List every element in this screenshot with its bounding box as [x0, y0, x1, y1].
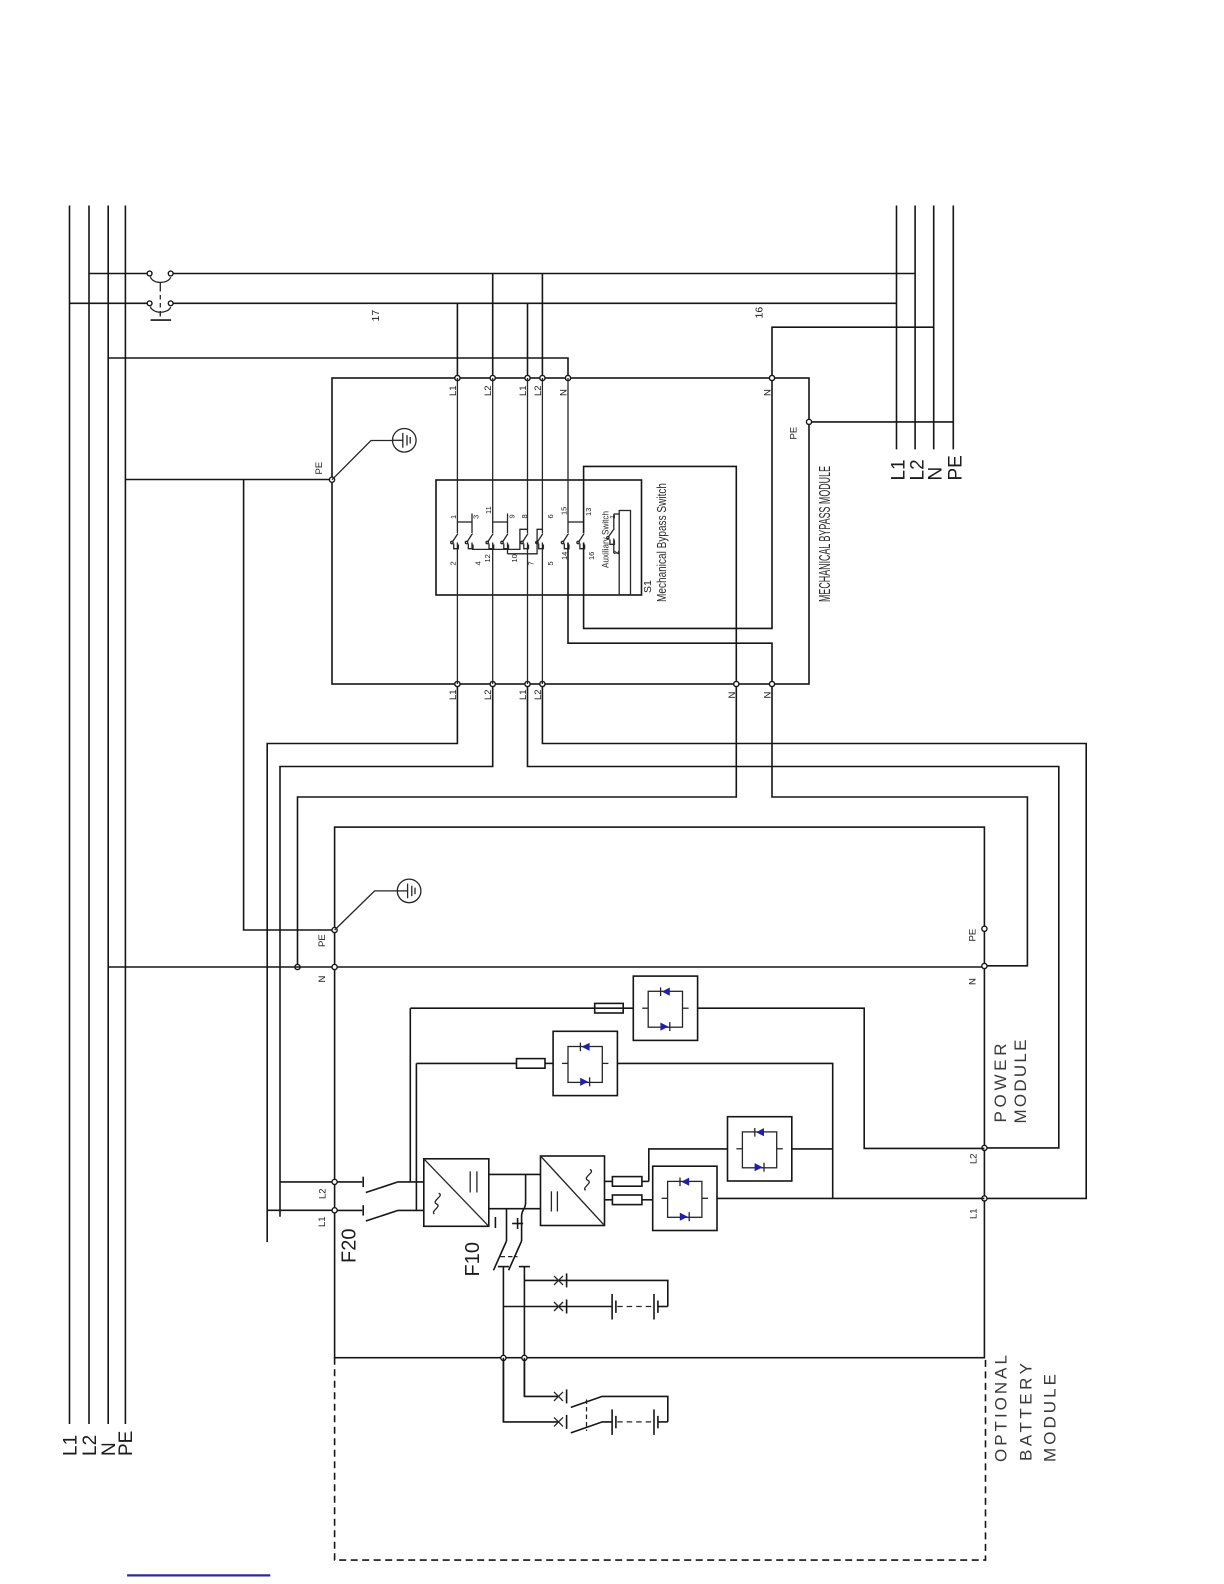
svg-text:F20: F20 — [339, 1229, 361, 1263]
svg-text:Mechanical Bypass Switch: Mechanical Bypass Switch — [654, 483, 669, 602]
fuse F1 static switch 1 — [595, 1003, 634, 1013]
junction battery minus at module edge — [501, 1355, 506, 1360]
wire DC link upper rail — [489, 1173, 541, 1175]
wire DC link lower rail — [489, 1208, 541, 1210]
battery switch blade lower — [571, 1422, 612, 1433]
svg-text:13: 13 — [584, 508, 593, 516]
input switch Q1 pole 2 (L1) — [70, 301, 897, 317]
S1 link pin4 to pin8 feed — [472, 529, 528, 549]
svg-text:L1: L1 — [969, 1208, 980, 1219]
F20 breaker pole 2 — [337, 1205, 424, 1221]
wire DC lower rail riser to F10 — [506, 1209, 508, 1241]
terminal N1 bypass bottom — [734, 681, 739, 686]
fuse F4 inverter output 2 — [612, 1195, 652, 1205]
svg-text:10: 10 — [510, 554, 519, 562]
svg-text:F10: F10 — [462, 1242, 484, 1276]
wire L2 input bus — [88, 206, 90, 1425]
svg-text:17: 17 — [370, 310, 382, 322]
S1 contact 6 pins 6-5 — [536, 378, 544, 684]
terminal L2b bypass bottom — [540, 681, 545, 686]
svg-text:1: 1 — [608, 515, 617, 519]
svg-text:L2: L2 — [318, 1188, 329, 1199]
wire bypass L2 out upper jog to terminal — [280, 1181, 335, 1183]
S1 bridge contacts 11-9 — [493, 521, 508, 523]
ground symbol bypass module — [332, 429, 416, 480]
terminal L1 power module right — [982, 1196, 987, 1201]
internal battery string 1 lower rail — [503, 1306, 612, 1308]
svg-text:9: 9 — [508, 514, 517, 518]
S1 contact 7 pins 15-14 — [561, 378, 569, 549]
svg-text:OPTIONAL: OPTIONAL — [992, 1355, 1011, 1462]
S1 link pin10 to pin6 feed — [508, 529, 543, 554]
disconnect mark string1 lower — [554, 1300, 567, 1314]
svg-text:N: N — [967, 978, 978, 985]
wire pin 16 to N2 top terminal — [584, 380, 772, 628]
rectifier AC-DC converter block — [424, 1159, 489, 1227]
ground symbol power module — [335, 879, 421, 930]
wire static switch 1 output — [698, 1008, 985, 1148]
svg-text:16: 16 — [754, 307, 766, 319]
terminal L2b bypass top — [540, 375, 545, 380]
svg-text:PE: PE — [317, 934, 328, 947]
wire L1 branch 2 to bypass module top terminal — [527, 303, 529, 378]
battery cell 1 string 2 — [612, 1409, 616, 1435]
svg-text:L1: L1 — [889, 459, 910, 480]
disconnect mark string2 lower — [554, 1415, 567, 1429]
output terminal stub PE — [952, 206, 954, 450]
svg-text:4: 4 — [474, 561, 483, 565]
svg-text:PE: PE — [789, 427, 800, 440]
svg-text:15: 15 — [560, 507, 569, 515]
output terminal stub L2 — [914, 206, 916, 450]
terminal N2 bypass bottom — [769, 681, 774, 686]
external battery string 2 upper rail — [524, 1358, 558, 1397]
wire bypass L2 out to power module left — [280, 686, 493, 1216]
wire L1 branch to bypass module top terminal — [456, 303, 458, 378]
junction N branch on bus wire — [295, 964, 300, 969]
terminal PE power module left — [332, 927, 337, 932]
wire N output link 16 — [772, 327, 934, 378]
terminal L1 power module left — [332, 1208, 337, 1213]
wire N from input bus to bypass module top — [108, 358, 568, 378]
svg-text:1: 1 — [449, 515, 458, 519]
S1 contact 2 pins 3-4 — [465, 514, 473, 550]
wire rectifier input riser to static switch 2 — [415, 1063, 417, 1210]
wire bypass L1b out to power module right edge L2 — [528, 686, 1059, 1148]
S1 bridge contacts 1-3 — [457, 521, 472, 523]
svg-text:5: 5 — [546, 561, 555, 565]
wire N2 down to right side N riser — [772, 686, 1027, 966]
terminal L2 bypass top — [490, 375, 495, 380]
wire pin 14 to N2 bottom terminal — [568, 543, 772, 682]
svg-text:L1: L1 — [60, 1435, 81, 1456]
terminal L1 bypass bottom — [455, 681, 460, 686]
svg-text:11: 11 — [484, 506, 493, 514]
wire rectifier input riser to static switch 1 — [409, 1008, 411, 1182]
wire N bus into power module — [108, 966, 984, 968]
junction battery plus at module edge — [522, 1355, 527, 1360]
thyristor static switch block 3 — [728, 1117, 792, 1181]
mechanical bypass module enclosure box — [332, 378, 809, 684]
F10 battery breaker pole 1 — [494, 1241, 509, 1270]
thyristor static switch block 2 — [553, 1031, 617, 1095]
inverter DC-AC converter block — [541, 1156, 605, 1226]
input switch Q1 handle bar — [151, 319, 172, 321]
wire N1 down to N branch — [298, 686, 737, 967]
S1 contact 1 pins 1-2 — [451, 378, 459, 684]
wire PE from input bus to bypass module left edge — [125, 479, 332, 481]
disconnect mark string1 upper — [554, 1273, 567, 1287]
optional battery module dashed enclosure — [335, 1358, 986, 1560]
terminal PE bypass left edge — [329, 477, 334, 482]
power module enclosure box — [335, 827, 985, 1358]
svg-text:2: 2 — [611, 550, 620, 554]
terminal PE bypass right edge — [806, 419, 811, 424]
svg-text:16: 16 — [587, 552, 596, 560]
external battery string 2 lower rail — [503, 1358, 558, 1422]
auxiliary switch box — [619, 511, 630, 595]
svg-text:7: 7 — [527, 561, 536, 565]
svg-text:PE: PE — [314, 462, 325, 475]
F20 breaker pole 1 — [337, 1177, 424, 1193]
wire battery string 1 end link — [658, 1306, 668, 1308]
wire PE from bypass module right edge to output PE — [809, 421, 953, 423]
terminal L1 bypass top — [455, 375, 460, 380]
terminal L1b bypass top — [525, 375, 530, 380]
wire battery bus minus — [502, 1267, 504, 1422]
svg-text:PE: PE — [116, 1431, 137, 1456]
svg-text:MECHANICAL BYPASS MODULE: MECHANICAL BYPASS MODULE — [817, 466, 834, 602]
thyristor static switch block 1 — [633, 976, 697, 1040]
svg-text:N: N — [926, 467, 947, 481]
wire L2 branch to bypass module top terminal — [492, 274, 494, 379]
wire static switch 4 output to L1 terminal — [717, 1197, 984, 1199]
terminal PE power module right — [982, 926, 987, 931]
wire bypass L1 out to power module left (rectifier feed) — [267, 686, 457, 1242]
battery cell 1 string 1 — [612, 1294, 616, 1320]
terminal N bypass top — [565, 375, 570, 380]
auxiliary switch contact — [607, 514, 619, 553]
wire inverter output upper via fuse to static switch 3 — [605, 1180, 613, 1182]
F10 gang link — [501, 1256, 518, 1258]
terminal L2 power module left — [332, 1179, 337, 1184]
wire bypass L2b out to power module right edge L1 — [542, 686, 1086, 1198]
terminal L2 power module right — [982, 1145, 987, 1150]
fuse F3 inverter output 1 — [612, 1177, 648, 1187]
wire static switch 2 output — [617, 1063, 832, 1198]
thyristor static switch block 4 — [653, 1166, 717, 1230]
svg-text:L2: L2 — [80, 1435, 101, 1456]
wire N1 from contact 13 feed to power module — [584, 466, 737, 681]
fuse F2 static switch 2 — [517, 1059, 554, 1069]
svg-text:12: 12 — [483, 554, 492, 562]
S1 mechanical bypass switch box — [436, 480, 642, 595]
wire L2 branch 2 to bypass module top terminal — [541, 274, 543, 379]
F10 battery breaker pole 2 — [509, 1241, 530, 1270]
wire PE input bus — [124, 206, 126, 1425]
terminal L1b bypass bottom — [525, 681, 530, 686]
input switch Q1 pole 1 (L2) — [89, 271, 915, 287]
S1 contact 4 pins 9-10 — [501, 514, 509, 554]
svg-text:L2: L2 — [969, 1153, 980, 1164]
input switch Q1 gang link — [159, 287, 161, 317]
terminal N power module left — [332, 964, 337, 969]
wire bypass L1 out lower jog to terminal — [267, 1209, 334, 1211]
wire L1 input bus — [69, 206, 71, 1425]
wire N input bus — [107, 206, 109, 1425]
output terminal stub L1 — [896, 206, 898, 450]
svg-text:N: N — [317, 976, 328, 983]
svg-text:S1: S1 — [642, 580, 654, 593]
label plus — [512, 1218, 523, 1229]
wire battery string 2 end link — [658, 1421, 668, 1423]
S1 bridge contacts 15-13 — [568, 521, 584, 523]
disconnect mark string2 upper — [554, 1389, 567, 1403]
terminal L2 bypass bottom — [490, 681, 495, 686]
wire static switch 3 output — [792, 1148, 833, 1150]
battery cell 2 string 2 — [654, 1409, 658, 1435]
wire DC upper rail riser to F10 with hop — [522, 1174, 526, 1241]
battery string 2 dashed cells link — [617, 1421, 653, 1423]
svg-text:PE: PE — [946, 455, 967, 480]
S1 contact 3 pins 11-12 — [486, 378, 494, 684]
wire PE riser to power module — [244, 480, 335, 931]
terminal N power module right — [982, 963, 987, 968]
S1 contact 5 pins 8-7 — [521, 378, 529, 684]
svg-text:L1: L1 — [317, 1216, 328, 1227]
battery switch gang link — [586, 1400, 588, 1432]
wire static switch 2 feed — [416, 1062, 516, 1064]
battery cell 2 string 1 — [654, 1294, 658, 1320]
wire inverter output lower via fuse to static switch 4 — [605, 1199, 613, 1201]
terminal N2 bypass top — [769, 375, 774, 380]
svg-text:3: 3 — [472, 515, 481, 519]
battery switch blade upper — [571, 1396, 668, 1422]
S1 contact 8 pins 13-16 — [577, 534, 585, 549]
svg-text:6: 6 — [546, 514, 555, 518]
svg-text:2: 2 — [448, 561, 457, 565]
svg-text:8: 8 — [520, 514, 529, 518]
wire battery bus plus — [523, 1267, 525, 1397]
battery string 1 dashed cells link — [617, 1306, 653, 1308]
wire static switch 1 feed — [410, 1007, 594, 1009]
internal battery string 1 upper rail — [524, 1280, 667, 1306]
footer blue rule — [127, 1574, 270, 1576]
svg-text:PE: PE — [967, 929, 978, 942]
output terminal stub N — [933, 206, 935, 450]
wire riser fuse F3 to static switch 3 — [649, 1149, 728, 1182]
label minus — [494, 1217, 496, 1228]
